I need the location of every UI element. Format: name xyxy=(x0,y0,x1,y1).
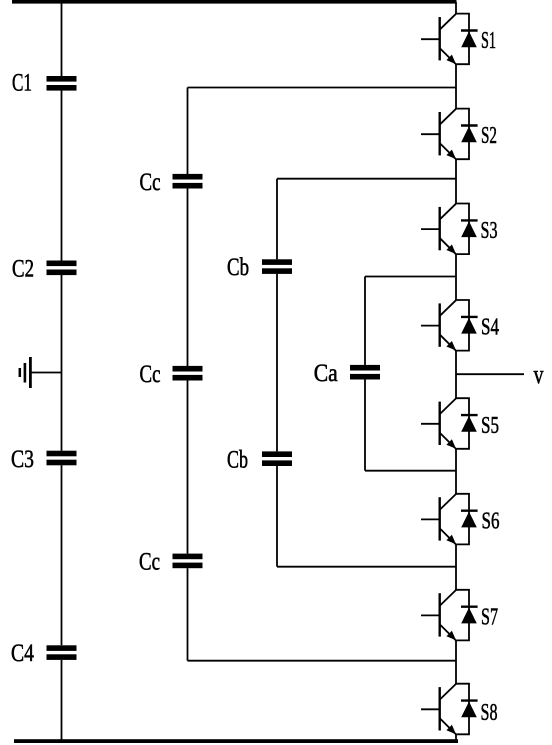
svg-text:S4: S4 xyxy=(481,315,499,341)
svg-text:Cb: Cb xyxy=(227,446,248,473)
svg-text:Cc: Cc xyxy=(139,549,160,576)
svg-text:v: v xyxy=(534,360,544,389)
svg-text:S1: S1 xyxy=(481,28,496,54)
svg-text:C4: C4 xyxy=(11,640,34,667)
svg-text:S6: S6 xyxy=(482,509,500,535)
svg-text:C3: C3 xyxy=(11,446,34,473)
svg-text:C2: C2 xyxy=(12,255,34,282)
svg-text:S2: S2 xyxy=(481,123,497,149)
svg-text:S3: S3 xyxy=(481,218,498,244)
svg-text:S8: S8 xyxy=(481,700,498,726)
svg-text:C1: C1 xyxy=(12,69,32,96)
svg-text:Cb: Cb xyxy=(227,254,249,281)
svg-text:S7: S7 xyxy=(481,604,498,630)
svg-text:S5: S5 xyxy=(481,413,499,439)
svg-text:Cc: Cc xyxy=(140,169,161,196)
svg-text:Ca: Ca xyxy=(314,360,338,387)
svg-text:Cc: Cc xyxy=(140,361,161,388)
